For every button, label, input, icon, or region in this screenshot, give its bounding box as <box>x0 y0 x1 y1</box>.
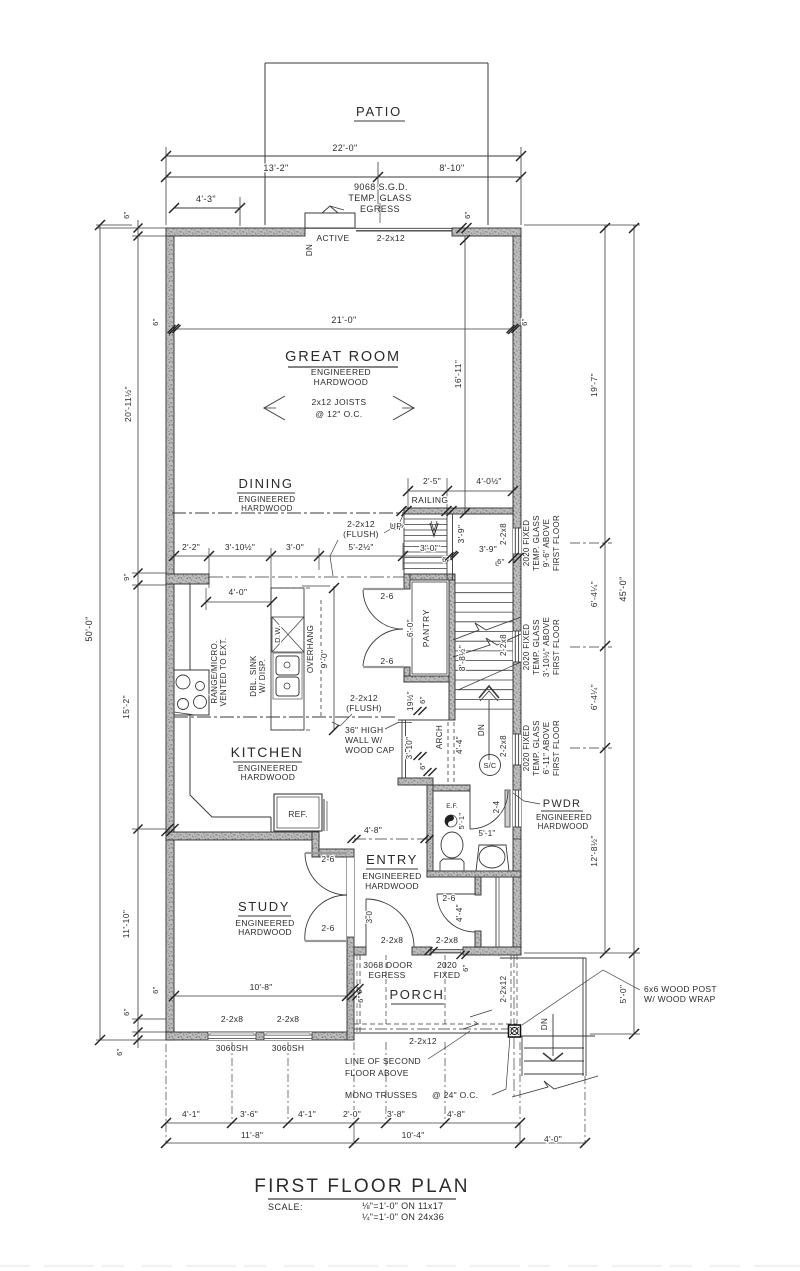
svg-text:12'-8½": 12'-8½" <box>589 835 599 867</box>
svg-text:HARDWOOD: HARDWOOD <box>365 881 419 891</box>
svg-text:2-2x12: 2-2x12 <box>409 1036 437 1046</box>
svg-text:2020 FIXED: 2020 FIXED <box>522 725 531 772</box>
svg-text:FIRST FLOOR: FIRST FLOOR <box>552 619 561 675</box>
svg-text:21'-0": 21'-0" <box>331 315 356 325</box>
svg-text:ENTRY: ENTRY <box>366 852 418 867</box>
svg-text:DN: DN <box>477 724 486 736</box>
svg-text:4'-0½": 4'-0½" <box>476 476 501 486</box>
svg-text:4'-4": 4'-4" <box>455 736 464 754</box>
svg-text:RAILING: RAILING <box>412 495 449 505</box>
svg-text:4'-8": 4'-8" <box>447 1109 465 1119</box>
svg-text:KITCHEN: KITCHEN <box>231 744 304 760</box>
svg-text:4'-1": 4'-1" <box>298 1109 316 1119</box>
svg-text:FLOOR ABOVE: FLOOR ABOVE <box>345 1068 409 1078</box>
svg-text:3'-8": 3'-8" <box>387 1109 405 1119</box>
svg-text:HARDWOOD: HARDWOOD <box>241 504 293 513</box>
svg-text:DBL. SINK: DBL. SINK <box>249 655 258 697</box>
svg-text:16'-11": 16'-11" <box>453 360 463 389</box>
svg-text:11'-8": 11'-8" <box>241 1130 263 1140</box>
svg-text:@ 24" O.C.: @ 24" O.C. <box>432 1090 478 1100</box>
svg-text:DN: DN <box>305 244 314 256</box>
svg-text:2'-0": 2'-0" <box>343 1109 361 1119</box>
svg-text:(FLUSH): (FLUSH) <box>343 529 379 539</box>
svg-text:UP: UP <box>390 521 403 531</box>
svg-text:15'-2": 15'-2" <box>121 695 131 719</box>
svg-text:9'-0": 9'-0" <box>319 650 329 669</box>
svg-text:4'-3": 4'-3" <box>196 194 216 204</box>
svg-text:2x12 JOISTS: 2x12 JOISTS <box>312 397 367 407</box>
svg-text:3'-10": 3'-10" <box>405 737 414 760</box>
svg-text:6": 6" <box>520 318 529 326</box>
svg-text:9'-6" ABOVE: 9'-6" ABOVE <box>542 519 551 568</box>
svg-text:ARCH: ARCH <box>435 725 444 749</box>
svg-text:DN: DN <box>540 1018 549 1030</box>
svg-text:FIRST FLOOR PLAN: FIRST FLOOR PLAN <box>254 1176 469 1197</box>
svg-text:¼"=1'-0" ON 24x36: ¼"=1'-0" ON 24x36 <box>362 1212 444 1222</box>
svg-text:2020 FIXED: 2020 FIXED <box>522 624 531 671</box>
svg-text:19'-7": 19'-7" <box>589 373 599 397</box>
svg-text:6'-4¼": 6'-4¼" <box>589 581 599 607</box>
svg-text:3'-10½": 3'-10½" <box>225 542 255 552</box>
svg-text:9068 S.G.D.: 9068 S.G.D. <box>354 182 408 192</box>
svg-text:2-2x8: 2-2x8 <box>499 634 508 656</box>
svg-text:4'-0": 4'-0" <box>544 1134 562 1144</box>
svg-text:3'-0": 3'-0" <box>286 542 304 552</box>
svg-text:8'-10": 8'-10" <box>439 163 464 173</box>
svg-text:ENGINEERED: ENGINEERED <box>536 813 592 822</box>
svg-text:2-2x8: 2-2x8 <box>277 1014 299 1024</box>
svg-text:3'-10½" ABOVE: 3'-10½" ABOVE <box>542 617 551 677</box>
svg-text:36" HIGH: 36" HIGH <box>345 725 383 735</box>
svg-text:6'-11" ABOVE: 6'-11" ABOVE <box>542 722 551 775</box>
svg-text:D.W.: D.W. <box>273 625 282 643</box>
svg-text:RANGE/MICRO.: RANGE/MICRO. <box>210 640 219 703</box>
svg-text:VENTED TO EXT.: VENTED TO EXT. <box>219 638 228 707</box>
svg-text:FIRST FLOOR: FIRST FLOOR <box>552 515 561 571</box>
svg-text:6": 6" <box>461 964 470 972</box>
svg-text:10'-8": 10'-8" <box>250 982 273 992</box>
svg-text:11'-10": 11'-10" <box>121 910 131 939</box>
svg-text:6x6 WOOD POST: 6x6 WOOD POST <box>644 984 717 994</box>
svg-text:50'-0": 50'-0" <box>84 616 94 641</box>
svg-text:W/ DISP.: W/ DISP. <box>258 659 267 693</box>
svg-text:3068 DOOR: 3068 DOOR <box>363 960 412 970</box>
svg-text:PANTRY: PANTRY <box>421 609 431 648</box>
svg-text:REF.: REF. <box>288 809 308 819</box>
svg-text:ENGINEERED: ENGINEERED <box>311 367 371 377</box>
svg-text:EGRESS: EGRESS <box>368 970 405 980</box>
svg-text:TEMP. GLASS: TEMP. GLASS <box>532 720 541 776</box>
svg-text:FIRST FLOOR: FIRST FLOOR <box>552 720 561 776</box>
svg-text:WOOD CAP: WOOD CAP <box>345 745 395 755</box>
svg-text:6": 6" <box>115 1048 124 1056</box>
svg-text:2020: 2020 <box>437 960 457 970</box>
svg-text:HARDWOOD: HARDWOOD <box>238 927 292 937</box>
svg-text:GREAT ROOM: GREAT ROOM <box>285 349 401 365</box>
svg-text:5'-1": 5'-1" <box>479 829 496 838</box>
svg-text:2'-5": 2'-5" <box>423 476 441 486</box>
svg-text:2-6: 2-6 <box>321 923 334 933</box>
svg-text:6": 6" <box>122 1008 131 1016</box>
svg-text:2-2x12: 2-2x12 <box>347 519 375 529</box>
svg-text:10'-4": 10'-4" <box>402 1130 425 1140</box>
svg-text:6'-4¼": 6'-4¼" <box>589 684 599 710</box>
svg-text:3'-6": 3'-6" <box>240 1109 258 1119</box>
svg-text:2-2x12: 2-2x12 <box>377 233 405 243</box>
svg-text:2020 FIXED: 2020 FIXED <box>522 520 531 567</box>
svg-text:20'-11½": 20'-11½" <box>123 386 133 422</box>
svg-text:6": 6" <box>151 318 160 326</box>
svg-text:2-2x8: 2-2x8 <box>221 1014 243 1024</box>
svg-text:ACTIVE: ACTIVE <box>316 233 349 243</box>
svg-text:S/C: S/C <box>483 761 496 770</box>
svg-text:STUDY: STUDY <box>238 899 290 914</box>
svg-text:3'-0": 3'-0" <box>420 543 438 553</box>
svg-text:W/ WOOD WRAP: W/ WOOD WRAP <box>644 994 716 1004</box>
svg-text:DINING: DINING <box>238 476 293 491</box>
svg-text:2-2x12: 2-2x12 <box>499 975 508 1002</box>
svg-text:6": 6" <box>418 762 427 770</box>
svg-text:(FLUSH): (FLUSH) <box>346 703 382 713</box>
svg-text:2-2x12: 2-2x12 <box>350 693 378 703</box>
svg-text:PWDR: PWDR <box>543 798 581 810</box>
svg-text:5'-2½": 5'-2½" <box>348 542 373 552</box>
svg-text:SCALE:: SCALE: <box>268 1202 303 1212</box>
svg-text:PORCH: PORCH <box>390 987 445 1002</box>
svg-text:TEMP. GLASS: TEMP. GLASS <box>532 619 541 675</box>
svg-text:2-6: 2-6 <box>380 656 393 666</box>
svg-text:6": 6" <box>463 211 472 219</box>
svg-text:@ 12" O.C.: @ 12" O.C. <box>315 409 362 419</box>
svg-text:6": 6" <box>356 995 365 1003</box>
svg-text:13'-2": 13'-2" <box>263 163 288 173</box>
svg-text:2-6: 2-6 <box>380 591 393 601</box>
svg-text:2-2x8: 2-2x8 <box>381 935 403 945</box>
svg-text:22'-0": 22'-0" <box>332 143 357 153</box>
svg-text:FIXED: FIXED <box>434 970 461 980</box>
svg-text:2'-2": 2'-2" <box>182 542 200 552</box>
svg-text:4'-4": 4'-4" <box>455 904 464 922</box>
svg-text:2-2x8: 2-2x8 <box>499 735 508 757</box>
svg-text:3-0: 3-0 <box>365 910 374 923</box>
svg-text:HARDWOOD: HARDWOOD <box>538 822 589 831</box>
svg-text:E.F.: E.F. <box>446 803 458 810</box>
svg-text:5'-1": 5'-1" <box>457 813 466 830</box>
svg-text:2-6: 2-6 <box>442 893 455 903</box>
svg-text:6": 6" <box>418 696 427 704</box>
svg-text:8'-8½": 8'-8½" <box>457 645 467 671</box>
svg-text:19½": 19½" <box>406 691 415 711</box>
svg-text:ENGINEERED: ENGINEERED <box>362 871 421 881</box>
svg-text:WALL W/: WALL W/ <box>345 735 383 745</box>
svg-text:6": 6" <box>497 557 505 566</box>
svg-text:MONO TRUSSES: MONO TRUSSES <box>345 1090 417 1100</box>
svg-text:HARDWOOD: HARDWOOD <box>241 772 296 782</box>
svg-text:6'-0": 6'-0" <box>406 619 415 637</box>
svg-text:9": 9" <box>122 573 131 581</box>
svg-text:TEMP. GLASS: TEMP. GLASS <box>532 515 541 571</box>
svg-text:2-4: 2-4 <box>492 800 501 813</box>
svg-text:TEMP. GLASS: TEMP. GLASS <box>348 193 411 203</box>
svg-text:PATIO: PATIO <box>356 104 402 119</box>
svg-text:45'-0": 45'-0" <box>618 576 628 601</box>
svg-text:2-6: 2-6 <box>321 854 334 864</box>
svg-text:5'-0": 5'-0" <box>618 985 628 1004</box>
svg-text:4'-1": 4'-1" <box>182 1109 200 1119</box>
svg-text:4'-8": 4'-8" <box>364 825 382 835</box>
svg-text:2-2x8: 2-2x8 <box>436 935 458 945</box>
svg-text:4'-0": 4'-0" <box>229 587 248 597</box>
svg-text:2-2x8: 2-2x8 <box>499 523 508 545</box>
svg-text:3'-9": 3'-9" <box>456 525 466 544</box>
svg-text:3'-9": 3'-9" <box>479 544 497 554</box>
svg-text:HARDWOOD: HARDWOOD <box>314 377 369 387</box>
svg-text:OVERHANG: OVERHANG <box>306 625 315 673</box>
svg-text:⅛"=1'-0" ON 11x17: ⅛"=1'-0" ON 11x17 <box>362 1201 443 1211</box>
svg-text:6": 6" <box>122 211 131 219</box>
svg-text:LINE OF SECOND: LINE OF SECOND <box>345 1056 421 1066</box>
svg-text:ENGINEERED: ENGINEERED <box>239 495 296 504</box>
svg-text:6": 6" <box>151 986 160 994</box>
